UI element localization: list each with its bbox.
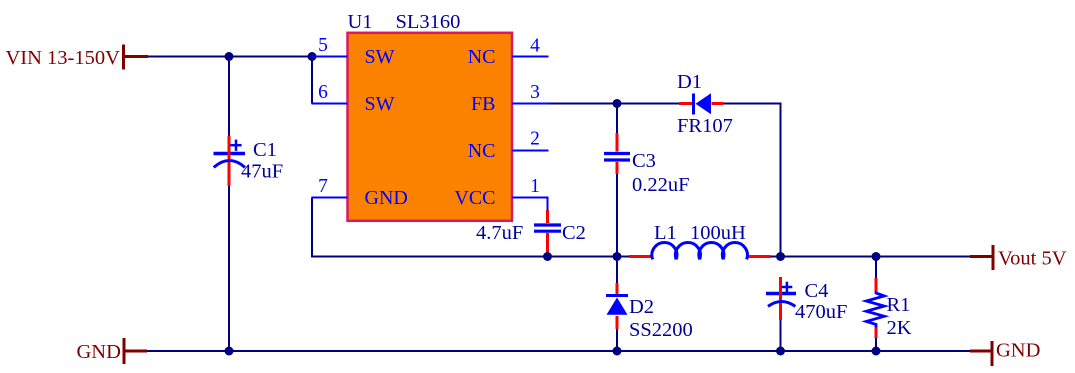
- svg-text:1: 1: [530, 176, 540, 197]
- svg-text:VCC: VCC: [454, 187, 495, 209]
- svg-text:6: 6: [318, 82, 328, 103]
- svg-text:C3: C3: [632, 150, 656, 172]
- svg-text:VIN 13-150V: VIN 13-150V: [6, 47, 121, 69]
- svg-text:0.22uF: 0.22uF: [632, 174, 690, 196]
- svg-text:2K: 2K: [887, 317, 912, 339]
- svg-text:3: 3: [530, 82, 540, 103]
- svg-text:NC: NC: [468, 46, 496, 68]
- svg-text:L1: L1: [654, 222, 677, 244]
- svg-text:C2: C2: [562, 222, 586, 244]
- svg-text:GND: GND: [365, 187, 408, 209]
- svg-text:C4: C4: [805, 280, 829, 302]
- svg-text:GND: GND: [77, 341, 121, 363]
- svg-text:FB: FB: [471, 93, 495, 115]
- svg-text:R1: R1: [887, 294, 911, 316]
- svg-text:U1: U1: [348, 11, 373, 33]
- svg-text:GND: GND: [996, 340, 1040, 362]
- svg-text:C1: C1: [253, 139, 277, 161]
- svg-text:5: 5: [318, 35, 328, 56]
- svg-text:2: 2: [530, 129, 540, 150]
- svg-text:100uH: 100uH: [690, 222, 746, 244]
- svg-text:NC: NC: [468, 140, 496, 162]
- svg-text:D2: D2: [629, 296, 654, 318]
- svg-text:470uF: 470uF: [795, 301, 847, 323]
- svg-text:4.7uF: 4.7uF: [476, 222, 523, 244]
- svg-text:Vout 5V: Vout 5V: [998, 248, 1067, 270]
- svg-text:SW: SW: [365, 93, 395, 115]
- svg-text:SW: SW: [365, 46, 395, 68]
- svg-text:SS2200: SS2200: [629, 319, 693, 341]
- svg-text:4: 4: [530, 36, 540, 57]
- svg-text:SL3160: SL3160: [396, 11, 461, 33]
- svg-text:47uF: 47uF: [241, 161, 283, 183]
- svg-text:D1: D1: [677, 71, 702, 93]
- svg-text:7: 7: [318, 176, 328, 197]
- svg-text:FR107: FR107: [677, 115, 733, 137]
